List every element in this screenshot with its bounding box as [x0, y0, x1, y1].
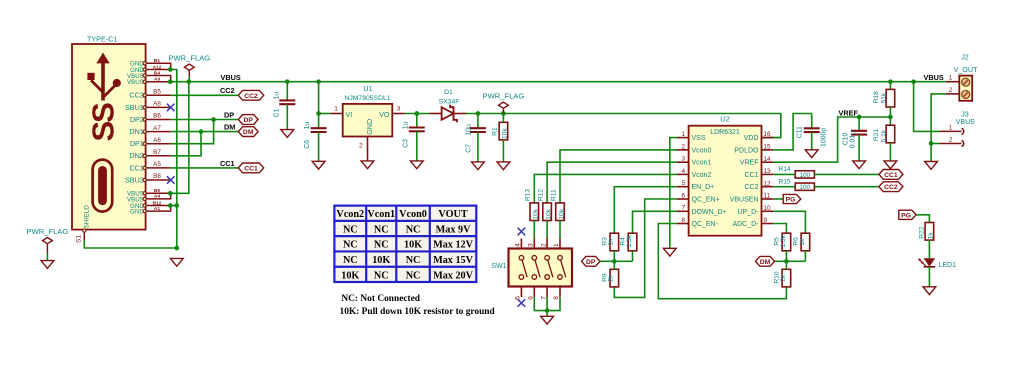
svg-text:3: 3	[528, 243, 535, 247]
svg-text:10: 10	[764, 205, 772, 212]
ground U1	[361, 161, 374, 169]
wire R14 to CC1 label	[814, 173, 879, 175]
wire VDD stub	[773, 137, 781, 139]
wire D1 cathode to U2 VDD	[466, 114, 781, 138]
pin A9 VBUS of TYPE-C1	[146, 81, 171, 83]
no-connect SW1 pin5	[518, 299, 526, 307]
wire C1 top	[286, 82, 288, 101]
pin A4 VBUS of TYPE-C1	[146, 193, 171, 199]
svg-text:1: 1	[334, 105, 338, 112]
capacitor C7	[470, 128, 486, 132]
svg-text:VBUSEN: VBUSEN	[730, 197, 759, 204]
svg-text:1.3k: 1.3k	[780, 234, 787, 247]
svg-text:C1: C1	[274, 108, 281, 117]
junction VBUS B4/A9	[168, 79, 173, 84]
wire R3 to R9 through DP junction	[613, 251, 615, 269]
wire U1 VO to D1	[405, 113, 430, 115]
svg-text:1k: 1k	[799, 238, 806, 246]
wire R6 bottom	[804, 251, 806, 261]
junction GND B12	[168, 203, 173, 208]
wire C7 top	[477, 114, 479, 129]
wire ADC_D- to R5	[773, 224, 786, 234]
svg-text:DM: DM	[243, 129, 254, 136]
svg-text:10K: 10K	[341, 270, 359, 281]
svg-text:DP: DP	[224, 110, 234, 119]
svg-text:A6: A6	[153, 137, 161, 144]
wire CC2 to label	[171, 94, 239, 96]
junction GND bus tap	[174, 203, 179, 208]
screw terminal of J2	[962, 90, 970, 98]
svg-text:13: 13	[764, 168, 772, 175]
wire PDLDO to C11	[773, 114, 811, 150]
USB logo trident arrow	[96, 53, 109, 64]
svg-text:A1: A1	[154, 206, 160, 212]
svg-text:7: 7	[540, 296, 547, 300]
ground SW1	[541, 316, 554, 324]
wire VBUS pins to rail	[170, 81, 189, 83]
resistor R15 100	[795, 183, 814, 190]
svg-text:NC: NC	[406, 224, 421, 235]
svg-text:NC: NC	[343, 224, 358, 235]
svg-text:R13: R13	[525, 189, 532, 201]
pin 3 VO of U1	[392, 113, 404, 115]
wire CC1 to label	[171, 167, 239, 169]
power flag PWR_FLAG bottom-left	[43, 238, 53, 254]
wire R21 bottom	[889, 143, 891, 161]
resistor R4 1.3k	[628, 233, 637, 251]
svg-text:VO: VO	[379, 110, 390, 119]
wire R15 to CC2 label	[814, 186, 879, 188]
junction DM node	[784, 259, 789, 264]
pin 14 VREF of U2	[762, 161, 774, 163]
svg-text:VBUS: VBUS	[221, 73, 241, 82]
USB-C receptacle pill outline	[93, 160, 113, 212]
wire Vcon1 to R12	[547, 162, 677, 203]
pin 8 QC_EN- of U2	[677, 223, 689, 225]
svg-text:R15: R15	[779, 178, 791, 185]
global label DP	[238, 115, 258, 125]
wire C3 bottom	[416, 131, 418, 161]
svg-text:S1: S1	[76, 235, 83, 243]
svg-text:VOUT: VOUT	[438, 209, 467, 220]
tag label PG at VBUSEN	[783, 194, 801, 203]
wire SW pins 6-8 to ground bus	[534, 297, 560, 311]
svg-text:CC2: CC2	[129, 91, 143, 100]
resistor R21 5.1k	[886, 125, 895, 143]
svg-text:2: 2	[681, 143, 685, 150]
svg-text:2: 2	[949, 136, 953, 143]
junction SW ground	[545, 308, 550, 313]
svg-text:PWR_FLAG: PWR_FLAG	[27, 227, 69, 236]
svg-text:PDLDO: PDLDO	[734, 147, 759, 154]
svg-text:R22: R22	[919, 226, 926, 238]
global label CC2 right	[879, 182, 903, 192]
svg-text:A12: A12	[153, 64, 162, 70]
svg-text:NC: NC	[343, 240, 358, 251]
svg-text:VBUS: VBUS	[127, 79, 144, 86]
svg-text:B1: B1	[154, 58, 160, 64]
pin B5 CC2 of TYPE-C1	[146, 94, 171, 96]
svg-text:VBUS: VBUS	[924, 73, 944, 82]
resistor R22 1k	[925, 223, 934, 241]
wire VSS to ground	[670, 138, 677, 249]
svg-text:10K: Pull down 10K resistor to: 10K: Pull down 10K resistor to ground	[340, 307, 496, 317]
resistor R6 1k	[801, 233, 810, 251]
svg-text:CC2: CC2	[244, 93, 258, 100]
svg-text:14: 14	[764, 156, 772, 163]
svg-text:C3: C3	[403, 139, 410, 148]
svg-text:11: 11	[764, 193, 771, 200]
pin B8 SBU2 of TYPE-C1	[146, 179, 171, 181]
wire C3 top	[416, 114, 418, 128]
wire R21 top	[889, 117, 891, 125]
junction C3	[414, 111, 419, 116]
svg-text:U2: U2	[720, 115, 730, 124]
resistor R12 10k	[543, 203, 552, 221]
switch element 1 of SW1	[519, 255, 524, 260]
svg-text:A9: A9	[154, 77, 160, 83]
svg-text:NC: NC	[374, 270, 389, 281]
tag label PG right	[899, 210, 916, 219]
wire C11 top	[811, 114, 813, 129]
regulator U1 NJM7805SDL1 body	[343, 104, 393, 137]
svg-text:B8: B8	[153, 173, 161, 180]
svg-text:2: 2	[949, 87, 953, 94]
svg-text:Vcon1: Vcon1	[692, 160, 712, 167]
svg-text:R14: R14	[779, 166, 791, 173]
pin B12 GND of TYPE-C1	[146, 205, 171, 207]
svg-text:TYPE-C1: TYPE-C1	[87, 35, 117, 44]
svg-text:1u: 1u	[274, 92, 281, 100]
pin 1 of SW1	[559, 239, 561, 249]
svg-text:2: 2	[540, 243, 547, 247]
svg-text:1: 1	[949, 124, 953, 131]
svg-text:9: 9	[764, 217, 768, 224]
svg-text:8: 8	[553, 296, 560, 300]
svg-text:PWR_FLAG: PWR_FLAG	[168, 53, 210, 62]
svg-text:1: 1	[949, 75, 953, 82]
svg-text:A8: A8	[153, 101, 161, 108]
pin B1 GND of TYPE-C1	[146, 63, 171, 69]
svg-text:NC: NC	[406, 270, 421, 281]
wire SW pin 7 down	[546, 297, 548, 311]
resistor R1 10k	[499, 122, 508, 140]
svg-text:PG: PG	[786, 197, 796, 204]
USB logo left branch	[91, 80, 103, 92]
ground J2/J3	[925, 162, 938, 170]
USB logo stem	[101, 63, 105, 101]
svg-text:B12: B12	[153, 200, 162, 206]
svg-text:DN1: DN1	[129, 127, 143, 136]
junction J3 branch	[911, 79, 916, 84]
wire Vcon2 to R13	[534, 174, 677, 203]
pin B9 VBUS of TYPE-C1	[146, 192, 171, 194]
svg-text:4: 4	[681, 168, 685, 175]
wire LED1 to ground	[928, 267, 930, 287]
svg-text:VSS: VSS	[692, 135, 706, 142]
svg-text:B6: B6	[153, 113, 161, 120]
svg-text:12: 12	[764, 180, 772, 187]
svg-text:10k: 10k	[533, 208, 540, 219]
wire C1 bottom	[286, 104, 288, 129]
svg-text:CC1: CC1	[744, 172, 758, 179]
svg-text:8: 8	[681, 217, 685, 224]
svg-text:DN2: DN2	[129, 151, 143, 160]
pin A5 CC1 of TYPE-C1	[146, 167, 171, 169]
svg-text:A7: A7	[153, 125, 161, 132]
svg-text:SBU2: SBU2	[125, 175, 144, 184]
pin 10 UP_D- of U2	[762, 210, 774, 212]
resistor R9 2k	[610, 269, 619, 287]
no-connect SBU1	[167, 104, 175, 112]
svg-text:0.01u: 0.01u	[850, 131, 857, 148]
svg-text:1: 1	[553, 243, 560, 247]
USB-C receptacle pill inner	[98, 166, 107, 205]
svg-text:NC: NC	[374, 240, 389, 251]
svg-text:ADC_D-: ADC_D-	[732, 221, 759, 228]
svg-text:DOWN_D+: DOWN_D+	[692, 209, 727, 216]
svg-text:R12: R12	[537, 189, 544, 201]
connector TYPE-C1 body	[72, 44, 146, 230]
diode D1 SX34F	[442, 107, 454, 120]
svg-text:3: 3	[397, 105, 401, 112]
pin A1 GND of TYPE-C1	[146, 206, 171, 212]
svg-text:Vcon0: Vcon0	[692, 147, 712, 154]
wire VBUS rail	[189, 81, 946, 83]
resistor R14 100	[795, 171, 814, 178]
svg-text:15: 15	[764, 144, 772, 151]
svg-text:LDR6321: LDR6321	[710, 129, 740, 136]
svg-text:2: 2	[359, 142, 363, 149]
svg-text:SS: SS	[86, 103, 121, 142]
pin 3 Vcon1 of U2	[677, 161, 689, 163]
svg-text:VI: VI	[346, 110, 353, 119]
pin A8 SBU1 of TYPE-C1	[146, 106, 171, 108]
pin 4 of SW1	[520, 239, 522, 249]
wire GND bus from GND pins down to ground	[170, 70, 177, 249]
wire Vcon0 to R11	[560, 150, 677, 203]
svg-text:Max 15V: Max 15V	[433, 255, 474, 266]
svg-text:7: 7	[681, 205, 685, 212]
svg-text:1u: 1u	[304, 122, 311, 130]
svg-text:NJM7805SDL1: NJM7805SDL1	[344, 95, 390, 102]
svg-text:CC1: CC1	[220, 159, 235, 168]
junction R18/VBUS	[888, 79, 893, 84]
wire R13 to SW pin3	[533, 221, 535, 239]
svg-text:NC: NC	[406, 255, 421, 266]
svg-text:C7: C7	[465, 144, 472, 153]
svg-text:10K: 10K	[372, 255, 390, 266]
svg-text:SX34F: SX34F	[439, 99, 460, 106]
pin B7 DN2 of TYPE-C1	[146, 155, 171, 157]
table Vcon configuration	[334, 206, 476, 282]
wire R18 top	[889, 82, 891, 90]
global label CC1	[238, 163, 263, 173]
wire R1 bottom	[502, 140, 504, 162]
svg-text:NC: NC	[374, 224, 389, 235]
wire R4 bottom	[632, 251, 634, 261]
pin 6 QC_EN+ of U2	[677, 198, 689, 200]
svg-text:10K: 10K	[404, 240, 422, 251]
wire QC_EN+ to R9	[614, 199, 677, 297]
USB logo square	[87, 73, 94, 80]
svg-text:Max 9V: Max 9V	[436, 224, 471, 235]
junction C1/VBUS	[285, 79, 290, 84]
no-connect SW1 pin4	[518, 228, 526, 236]
svg-text:R11: R11	[550, 189, 557, 201]
pin 15 PDLDO of U2	[762, 149, 774, 151]
global label DM	[238, 127, 258, 137]
global label DP at SW	[582, 256, 601, 266]
pin 2 Vcon0 of U2	[677, 149, 689, 151]
svg-text:V_OUT: V_OUT	[954, 65, 979, 74]
junction C10/VREF	[857, 115, 862, 120]
wire QC_EN- to R10	[658, 224, 786, 299]
wire pin13 to R14	[773, 173, 795, 175]
svg-text:NC: NC	[343, 255, 358, 266]
svg-text:CC2: CC2	[220, 86, 235, 95]
svg-text:QC_EN-: QC_EN-	[692, 221, 719, 228]
wire VBUS to J3 pin1	[914, 82, 940, 132]
wire VBUS bus down to B9/A4	[170, 82, 189, 194]
svg-text:DP1: DP1	[130, 139, 144, 148]
pin 16 VDD of U2	[762, 137, 774, 139]
svg-text:5: 5	[681, 180, 685, 187]
svg-text:CC2: CC2	[744, 184, 758, 191]
svg-text:1000p: 1000p	[820, 128, 827, 147]
svg-text:Vcon2: Vcon2	[336, 209, 364, 220]
svg-text:J3: J3	[961, 109, 969, 118]
pin 1 of J3	[940, 128, 964, 134]
pin 11 VBUSEN of U2	[762, 198, 774, 200]
pin A7 DN1 of TYPE-C1	[146, 131, 171, 133]
ground R1	[497, 162, 510, 170]
wire R22 to LED1	[928, 240, 930, 258]
wire C7 bottom	[477, 132, 479, 162]
pin 3 of SW1	[533, 239, 535, 249]
junction DM	[199, 129, 204, 134]
screw terminal of J2	[962, 78, 970, 86]
pin 13 CC1 of U2	[762, 173, 774, 175]
ground C11	[805, 150, 818, 158]
svg-text:6: 6	[528, 296, 535, 300]
pin 5 EN_D+ of U2	[677, 186, 689, 188]
ground C10	[853, 161, 866, 169]
junction shield/GND bus	[174, 246, 179, 251]
wire C10 bottom	[858, 135, 860, 161]
svg-text:Vcon1: Vcon1	[367, 209, 395, 220]
resistor R13 10k	[530, 203, 539, 221]
resistor R5 1.3k	[782, 233, 791, 251]
junction R1/PWR_FLAG	[501, 111, 506, 116]
wire R1 top	[502, 114, 504, 123]
svg-text:Max 12V: Max 12V	[433, 240, 474, 251]
resistor R18 51k	[886, 89, 895, 107]
svg-text:100: 100	[799, 172, 810, 179]
pin cathode of D1	[454, 113, 467, 115]
svg-text:R18: R18	[873, 91, 880, 103]
wire C10 top	[858, 117, 860, 131]
svg-text:GND: GND	[130, 209, 144, 216]
wire VREF net	[773, 117, 890, 162]
svg-text:DM: DM	[760, 259, 771, 266]
pin 2 of J2	[946, 93, 960, 95]
wire J3 pin2 link	[931, 143, 939, 145]
resistor R3 1k	[610, 233, 619, 251]
no-connect SBU2	[167, 176, 175, 184]
wire GND B12 link to bus	[170, 205, 177, 207]
wire EN_D+ to R3	[614, 187, 677, 234]
svg-text:100: 100	[799, 184, 810, 191]
pin A6 DP1 of TYPE-C1	[146, 143, 171, 145]
junction GND B1/A12	[168, 67, 173, 72]
svg-text:1: 1	[681, 131, 685, 138]
svg-text:SBU1: SBU1	[125, 103, 144, 112]
connector J2 body	[959, 76, 972, 101]
svg-text:J2: J2	[961, 53, 969, 62]
USB logo circle	[113, 79, 121, 87]
wire DP2 to DP label	[171, 119, 239, 121]
svg-text:DP: DP	[586, 259, 596, 266]
wire R18 bottom	[889, 107, 891, 117]
svg-text:LED1: LED1	[939, 262, 957, 269]
svg-text:B7: B7	[153, 149, 161, 156]
svg-text:NC: Not Connected: NC: Not Connected	[341, 294, 420, 304]
pin 7 DOWN_D+ of U2	[677, 210, 689, 212]
junction C7	[476, 111, 481, 116]
pin 2 of SW1	[546, 239, 548, 249]
wire UP_D- to R6	[773, 211, 805, 233]
svg-text:Max 20V: Max 20V	[433, 270, 474, 281]
wire C6 bottom	[318, 132, 320, 161]
svg-text:R1: R1	[492, 127, 499, 136]
wire C11 bottom	[811, 132, 813, 150]
IC U2 LDR6321 body	[689, 126, 762, 236]
global label CC1 right	[879, 170, 903, 180]
pin 1 of J2	[946, 81, 960, 83]
power flag PWR_FLAG at 5V	[499, 102, 509, 113]
svg-text:CC2: CC2	[884, 184, 898, 191]
junction DP	[211, 117, 216, 122]
svg-text:CC1: CC1	[244, 165, 258, 172]
svg-text:C11: C11	[797, 126, 804, 138]
pin B4 VBUS of TYPE-C1	[146, 76, 171, 82]
switch element 4 of SW1	[558, 255, 563, 260]
wire R12 to SW pin2	[546, 221, 548, 239]
wire DP1 up to DP	[171, 120, 214, 144]
wire DOWN_D+ to R4	[633, 211, 677, 233]
svg-text:VBUS: VBUS	[956, 119, 975, 126]
svg-text:1u: 1u	[403, 121, 410, 129]
svg-text:6: 6	[681, 192, 685, 199]
svg-text:DP2: DP2	[130, 115, 144, 124]
svg-text:PWR_FLAG: PWR_FLAG	[483, 91, 525, 100]
svg-text:SHIELD: SHIELD	[84, 205, 91, 229]
capacitor C1	[279, 100, 295, 104]
ground LED1	[923, 287, 936, 295]
svg-text:VREF: VREF	[740, 160, 759, 167]
pin 8 of SW1	[559, 287, 561, 298]
wire SW ground stub	[546, 311, 548, 317]
svg-text:2k: 2k	[780, 274, 787, 282]
svg-text:VREF: VREF	[839, 108, 859, 117]
switch element 3 of SW1	[545, 255, 550, 260]
capacitor C3	[409, 128, 425, 132]
power flag PWR_FLAG at VBUS	[184, 64, 194, 77]
svg-text:Vcon0: Vcon0	[399, 209, 427, 220]
LED LED1	[924, 258, 936, 266]
pin A12 GND of TYPE-C1	[146, 69, 171, 71]
